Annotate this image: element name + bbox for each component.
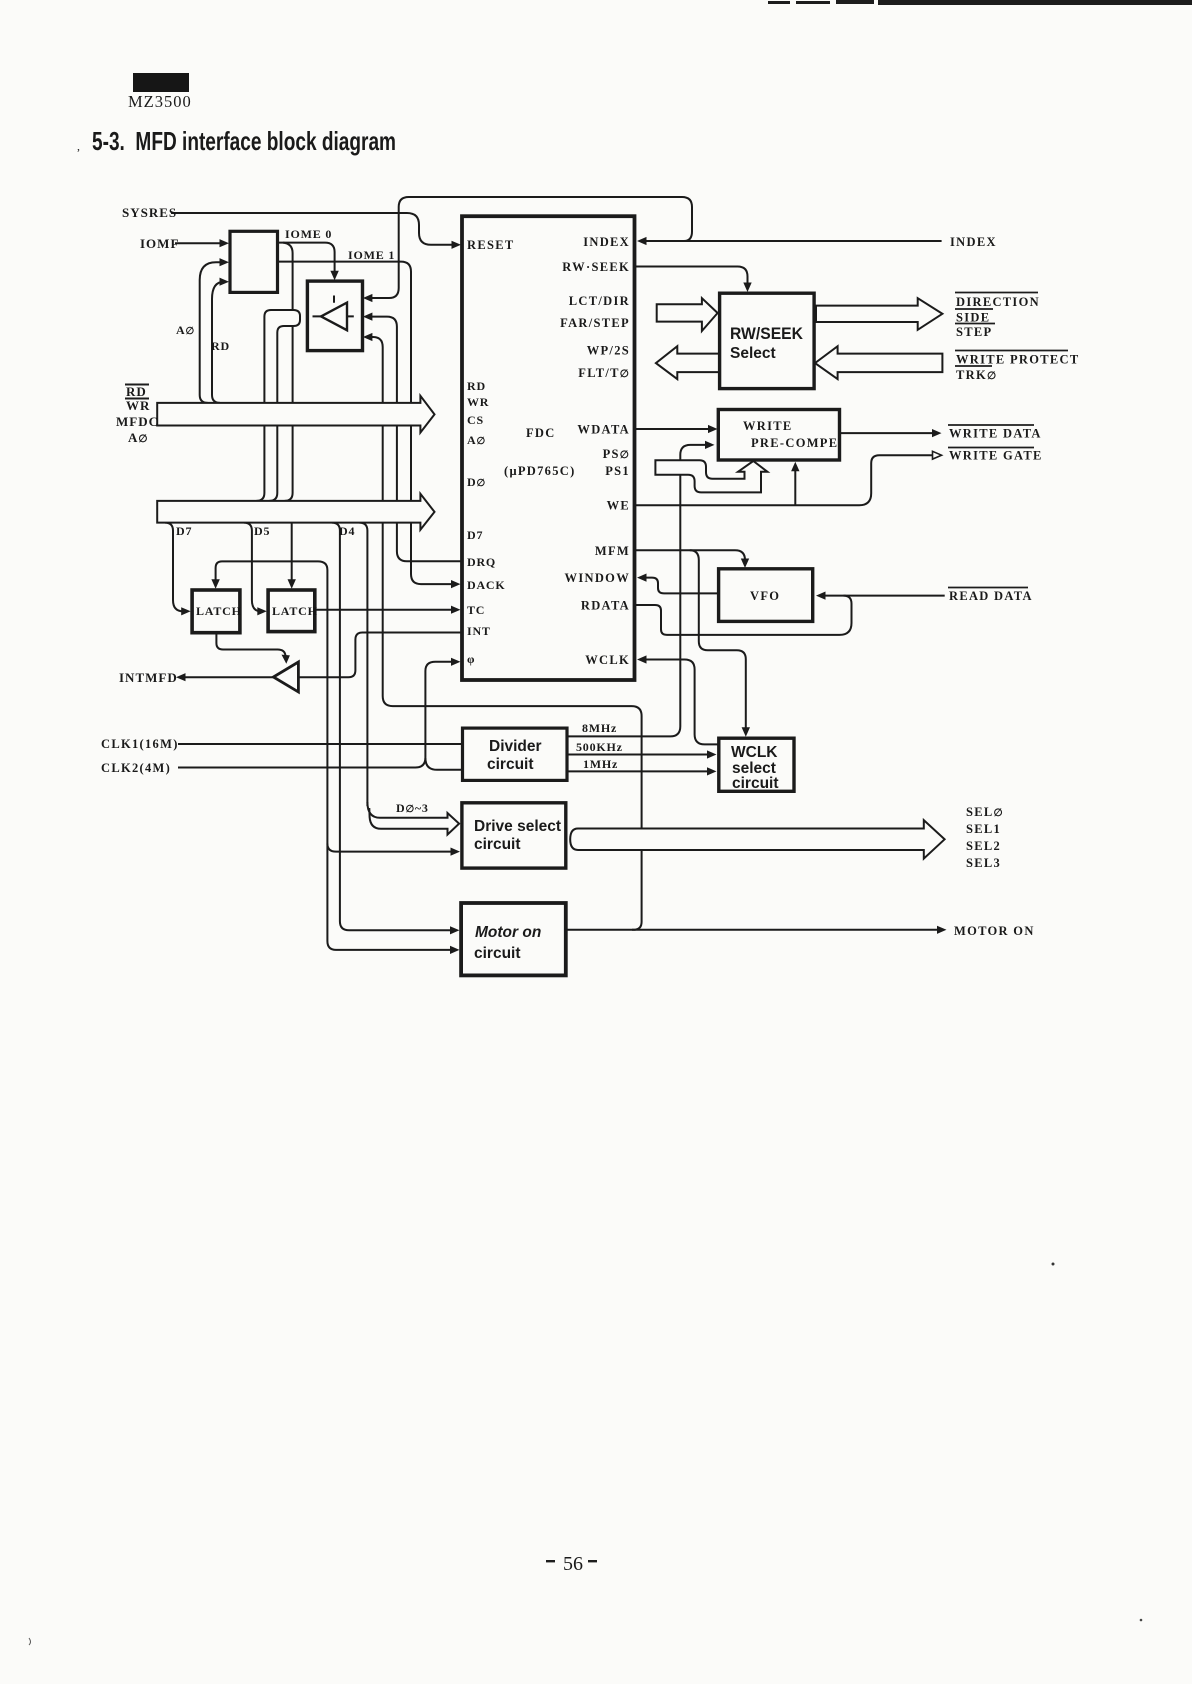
svg-text:TRK∅: TRK∅ (956, 368, 997, 382)
pin WDATA (577, 423, 630, 437)
label INDEX external (950, 235, 997, 249)
label STEP (955, 324, 995, 340)
wire MOTOR ON output (566, 929, 939, 931)
label LATCH2 (272, 604, 318, 618)
pin FAR/STEP (560, 316, 630, 330)
arrowhead MFM into VFO (741, 559, 749, 569)
wire 8MHz from divider to precompensator pin2 (567, 445, 708, 737)
label WRITE DATA (948, 425, 1042, 441)
label RW/SEEK Select (730, 324, 804, 362)
label uPD765C (504, 464, 576, 478)
arrowhead motor on input1 (450, 926, 460, 934)
svg-text:Drive select: Drive select (474, 818, 561, 835)
svg-text:Motor on: Motor on (475, 924, 541, 941)
wire INDEX input line (640, 240, 942, 242)
label RD bar (125, 384, 149, 399)
wire 1MHz to WCLK select (567, 770, 710, 772)
wire FDC MFM to VFO and WCLK select (635, 550, 746, 729)
arrowhead WRITE DATA output (932, 429, 942, 437)
arrowhead buffer pin3 (363, 333, 373, 341)
pin CS (467, 413, 484, 427)
svg-text:FAR/STEP: FAR/STEP (560, 316, 630, 330)
pin WCLK (585, 653, 630, 667)
bus MFDC control bus arrow (157, 396, 434, 433)
svg-text:CLK1(16M): CLK1(16M) (101, 737, 179, 751)
wire decoder input 3 from control bus (212, 282, 224, 403)
svg-text:D7: D7 (467, 528, 483, 542)
svg-text:,: , (77, 139, 80, 153)
svg-text:1MHz: 1MHz (583, 757, 618, 771)
label SIDE (955, 309, 993, 325)
thick wire PS0 PS1 to precompensator bottom (655, 460, 767, 492)
svg-text:WP/2S: WP/2S (587, 344, 630, 358)
svg-text:WR: WR (126, 398, 150, 413)
write precompensator box (718, 410, 839, 461)
label WR bar (125, 398, 150, 413)
label IOMF (140, 236, 179, 251)
thick wire from data bus to buffer input (256, 310, 300, 501)
wire IOME0 decoder to buffer top (278, 243, 335, 501)
svg-text:IOMF: IOMF (140, 236, 179, 251)
svg-text:D∅~3: D∅~3 (396, 801, 429, 815)
wire WRITE DATA output (840, 432, 934, 434)
label LATCH1 (196, 604, 242, 618)
svg-text:RD: RD (467, 379, 486, 393)
arrowhead IOMF (220, 239, 230, 247)
wire CLK1 to divider (178, 743, 463, 745)
wire 500KHz to WCLK select (567, 754, 710, 756)
svg-text:5-3. MFD interface block diag: 5-3. MFD interface block diagram (92, 126, 396, 156)
label WRITE PRE-COMPE (743, 419, 838, 450)
label CLK1 16M (101, 737, 179, 751)
svg-text:INDEX: INDEX (950, 235, 997, 249)
wire buffer pin3 to motor-on rail (372, 337, 642, 930)
INTMFD inverter triangle (273, 662, 298, 692)
svg-text:D∅: D∅ (467, 475, 486, 489)
svg-text:FDC: FDC (526, 426, 556, 440)
pin WE (607, 499, 630, 513)
svg-text:WINDOW: WINDOW (565, 571, 630, 585)
decoder box (230, 231, 278, 292)
svg-text:SEL∅: SEL∅ (966, 805, 1004, 819)
stray specks (29, 1263, 1142, 1646)
label SEL1 (966, 822, 1001, 836)
svg-text:RESET: RESET (467, 238, 515, 252)
arrowhead clock phi (451, 658, 461, 666)
svg-text:SIDE: SIDE (956, 311, 990, 325)
arrowhead WE into precompensator bottom (791, 462, 799, 472)
svg-text:FLT/T∅: FLT/T∅ (578, 366, 630, 380)
wire LATCH2 to FDC TC (315, 609, 454, 611)
svg-text:WRITE GATE: WRITE GATE (949, 449, 1043, 463)
wire CLK2 to FDC clock and divider (178, 662, 463, 770)
label A0 near decoder (176, 323, 195, 337)
svg-text:WRITE PROTECT: WRITE PROTECT (956, 353, 1080, 367)
pin PS0 (603, 447, 630, 461)
label CLK2 4M (101, 761, 171, 775)
svg-text:LCT/DIR: LCT/DIR (569, 294, 630, 308)
svg-text:SEL2: SEL2 (966, 839, 1001, 853)
label MOTOR ON (954, 924, 1035, 938)
arrowhead LATCH2 clock (288, 579, 296, 589)
buffer triangle (313, 296, 354, 331)
drive select circuit box (462, 803, 566, 868)
label FDC (526, 426, 556, 440)
svg-text:CLK2(4M): CLK2(4M) (101, 761, 171, 775)
wire D0-3 bus to drive select (359, 523, 459, 835)
svg-text:56: 56 (563, 1553, 583, 1575)
wire READ DATA to FDC RDATA (635, 596, 945, 635)
buffer box (307, 281, 362, 351)
label Divider circuit (487, 738, 542, 773)
svg-text:D7: D7 (176, 524, 192, 538)
svg-text:DACK: DACK (467, 578, 506, 592)
arrowhead buffer pin2 (363, 313, 373, 321)
pin RW-SEEK (562, 260, 630, 274)
label WRITE PROTECT (955, 351, 1080, 367)
svg-text:INDEX: INDEX (583, 235, 630, 249)
svg-text:φ: φ (467, 652, 475, 666)
wire FDC INT to inverter (298, 633, 462, 678)
arrowhead 1MHz (707, 767, 717, 775)
arrowhead READ DATA into VFO (816, 592, 826, 600)
arrowhead DACK (451, 580, 461, 588)
svg-text:IOME 0: IOME 0 (285, 227, 332, 241)
svg-text:circuit: circuit (487, 756, 534, 773)
svg-text:WRITE DATA: WRITE DATA (949, 427, 1042, 441)
svg-text:MZ3500: MZ3500 (128, 92, 192, 111)
label MFDC (116, 414, 159, 429)
label WCLK select circuit (731, 744, 779, 792)
bus data bus arrow (157, 494, 434, 530)
pin INT (467, 624, 491, 638)
label A0 bus (128, 430, 149, 445)
arrowhead RESET (452, 241, 462, 249)
LATCH2 box (268, 590, 315, 632)
wire IOMF input (175, 242, 223, 244)
footer page number 56 (546, 1553, 597, 1575)
arrowhead buffer pin1 (363, 294, 373, 302)
wire SYSRES to FDC RESET (171, 213, 456, 245)
pin RESET (467, 238, 515, 252)
hollow arrow FDC to RW/SEEK select (657, 298, 718, 331)
svg-text:RDATA: RDATA (581, 599, 630, 613)
header MZ3500 text (128, 92, 192, 111)
pin PS1 (605, 464, 630, 478)
arrowhead 500KHz (707, 750, 717, 758)
arrowhead 8MHz into precompensator pin2 (705, 441, 715, 449)
label 500KHz (576, 740, 623, 754)
svg-text:circuit: circuit (474, 836, 521, 853)
wire D5 to LATCH2 (244, 523, 262, 612)
hollow arrow WRITE PROTECT TRK0 input (815, 346, 942, 379)
arrowhead decoder in2 (220, 258, 230, 266)
wire FDC WDATA to write precompensator (635, 428, 712, 430)
label SEL3 (966, 856, 1001, 870)
pin D7 (467, 528, 483, 542)
svg-text:MOTOR ON: MOTOR ON (954, 924, 1035, 938)
pin DACK (467, 578, 506, 592)
arrowhead WDATA into precompensator (708, 425, 718, 433)
wire LATCH2 clock from data bus (291, 523, 293, 580)
pin INDEX (583, 235, 630, 249)
svg-text:MFM: MFM (595, 544, 630, 558)
pin clock phi (467, 652, 475, 666)
arrowhead MOTOR ON output (937, 926, 947, 934)
title 5-3 MFD interface block diagram (77, 126, 396, 156)
svg-text:IOME 1: IOME 1 (348, 248, 395, 262)
label SEL0 (966, 805, 1004, 819)
pin WP/2S (587, 344, 630, 358)
pin LCT/DIR (569, 294, 630, 308)
pin TC (467, 603, 485, 617)
svg-text:(μPD765C): (μPD765C) (504, 464, 576, 478)
header MZ3500 black tab (133, 73, 189, 92)
label INTMFD (119, 670, 178, 685)
svg-text:circuit: circuit (474, 945, 521, 962)
svg-text:VFO: VFO (750, 589, 780, 603)
svg-text:D5: D5 (254, 524, 270, 538)
motor on circuit box (461, 903, 566, 975)
wire LATCH1 output to inverter (216, 633, 285, 656)
label WRITE GATE (948, 448, 1043, 463)
svg-text:TC: TC (467, 603, 485, 617)
svg-text:PS∅: PS∅ (603, 447, 630, 461)
label SYSRES (122, 205, 177, 220)
wire IOME1 decoder to FDC DACK (278, 262, 455, 584)
pin FLT/T0 (578, 366, 630, 380)
svg-text:500KHz: 500KHz (576, 740, 623, 754)
pin A0 (467, 433, 486, 447)
svg-text:STEP: STEP (956, 325, 992, 339)
bus SEL output arrow (570, 820, 944, 858)
arrowhead WRITE GATE open (933, 451, 942, 459)
pin WR (467, 395, 489, 409)
arrowhead motor on input2 (450, 946, 460, 954)
label Drive select circuit (474, 818, 561, 853)
wire decoder input 2 from control bus (200, 262, 223, 403)
arrowhead IOME0 into buffer (330, 271, 338, 281)
svg-text:SEL3: SEL3 (966, 856, 1001, 870)
svg-text:RW/SEEK: RW/SEEK (730, 324, 804, 343)
header scan edge line top right (768, 0, 1192, 5)
svg-text:RD: RD (126, 384, 147, 399)
label D5 (254, 524, 270, 538)
svg-text:Select: Select (730, 345, 776, 362)
LATCH1 box (192, 590, 240, 633)
arrowhead INDEX into FDC (637, 237, 647, 245)
svg-text:WCLK: WCLK (731, 744, 778, 761)
wire D7 to LATCH1 (165, 523, 185, 612)
pin WINDOW (565, 571, 630, 585)
pin RD (467, 379, 486, 393)
divider circuit box (463, 728, 568, 780)
arrowhead LATCH1 out to inverter (282, 655, 290, 664)
svg-text:DIRECTION: DIRECTION (956, 295, 1040, 309)
svg-text:Divider: Divider (489, 738, 542, 755)
svg-text:PS1: PS1 (605, 464, 630, 478)
label Motor on circuit (474, 924, 541, 962)
svg-text:DRQ: DRQ (467, 555, 496, 569)
svg-text:INT: INT (467, 624, 491, 638)
arrowhead RW-SEEK into select box (743, 283, 751, 293)
pin RDATA (581, 599, 630, 613)
svg-text:RD: RD (211, 339, 230, 353)
label RD near decoder (211, 339, 230, 353)
svg-text:SEL1: SEL1 (966, 822, 1001, 836)
wire D4 to motor on input1 (332, 523, 453, 931)
label IOME1 (348, 248, 395, 262)
label READ DATA (948, 588, 1033, 604)
svg-text:MFDC: MFDC (116, 414, 159, 429)
label DIRECTION (955, 293, 1040, 310)
hollow arrow DIRECTION SIDE STEP output (816, 298, 942, 330)
arrowhead D5 into LATCH2 (257, 607, 267, 615)
arrowhead WINDOW into FDC (637, 574, 647, 582)
arrowhead drive select input2 (451, 848, 461, 856)
svg-text:WE: WE (607, 499, 630, 513)
arrowhead INTMFD (176, 673, 186, 681)
svg-text:8MHz: 8MHz (582, 721, 617, 735)
pin MFM (595, 544, 630, 558)
svg-text:RW·SEEK: RW·SEEK (562, 260, 630, 274)
arrowhead WCLK into FDC (637, 655, 647, 663)
svg-text:SYSRES: SYSRES (122, 205, 177, 220)
wire latch clock rail to drive select and motor on (216, 561, 453, 950)
wire VFO to FDC WINDOW (644, 578, 719, 594)
svg-text:D4: D4 (339, 524, 355, 538)
svg-text:WDATA: WDATA (577, 423, 630, 437)
wire FDC RW-SEEK to select box (635, 267, 748, 286)
label D7 (176, 524, 192, 538)
arrowhead MFM branch into WCLK select (742, 727, 750, 737)
arrowhead decoder in3 (220, 278, 230, 286)
wire FDC WE to WRITE GATE and precompensator (635, 455, 934, 505)
svg-text:WRITE: WRITE (743, 419, 793, 433)
wire INDEX top rail to buffer pin1 (370, 197, 692, 298)
svg-text:circuit: circuit (732, 775, 779, 792)
svg-text:A∅: A∅ (467, 433, 486, 447)
label D0-3 (396, 801, 429, 815)
hollow arrow RW/SEEK select to FDC (656, 346, 720, 379)
svg-text:LATCH: LATCH (196, 604, 242, 618)
VFO box (719, 569, 813, 622)
arrowhead TC (451, 606, 461, 614)
svg-text:READ DATA: READ DATA (949, 589, 1033, 603)
pin D0 (467, 475, 486, 489)
svg-text:LATCH: LATCH (272, 604, 318, 618)
label D4 (339, 524, 355, 538)
RW/SEEK select box (720, 293, 815, 388)
arrowhead LATCH1 clock (211, 579, 219, 589)
label TRK0 (955, 366, 997, 382)
label 1MHz (583, 757, 618, 771)
label IOME0 (285, 227, 332, 241)
label 8MHz (582, 721, 617, 735)
label SEL2 (966, 839, 1001, 853)
wire buffer pin2 to FDC DRQ (372, 317, 462, 562)
wire INTMFD output (183, 676, 273, 678)
FDC box U1 (462, 216, 635, 680)
wire WCLK select to FDC WCLK (644, 660, 719, 745)
svg-text:INTMFD: INTMFD (119, 670, 178, 685)
svg-text:CS: CS (467, 413, 484, 427)
WCLK select circuit box (719, 738, 794, 791)
svg-text:A∅: A∅ (176, 323, 195, 337)
svg-text:WCLK: WCLK (585, 653, 630, 667)
svg-text:WR: WR (467, 395, 489, 409)
svg-text:PRE-COMPE: PRE-COMPE (751, 436, 838, 450)
label VFO (750, 589, 780, 603)
arrowhead D7 into LATCH1 (181, 607, 191, 615)
pin DRQ (467, 555, 496, 569)
